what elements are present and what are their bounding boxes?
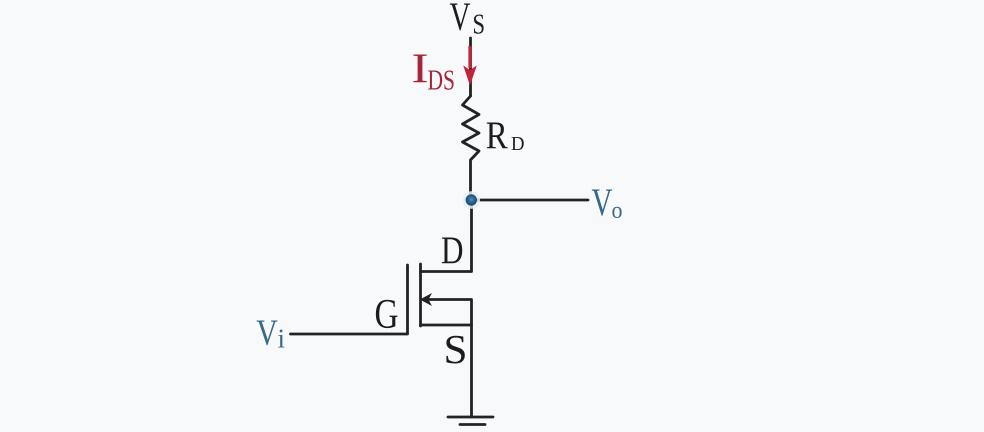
svg-text:I: I — [412, 47, 429, 93]
svg-text:o: o — [612, 197, 623, 224]
svg-text:V: V — [450, 0, 471, 39]
svg-text:i: i — [278, 324, 286, 354]
svg-text:D: D — [441, 228, 464, 272]
svg-text:G: G — [375, 291, 399, 338]
svg-text:V: V — [592, 180, 613, 224]
svg-text:DS: DS — [428, 66, 456, 97]
svg-text:V: V — [256, 313, 278, 354]
svg-text:S: S — [444, 326, 468, 372]
svg-text:R: R — [486, 114, 508, 157]
svg-text:S: S — [473, 10, 486, 41]
svg-text:D: D — [511, 133, 525, 155]
